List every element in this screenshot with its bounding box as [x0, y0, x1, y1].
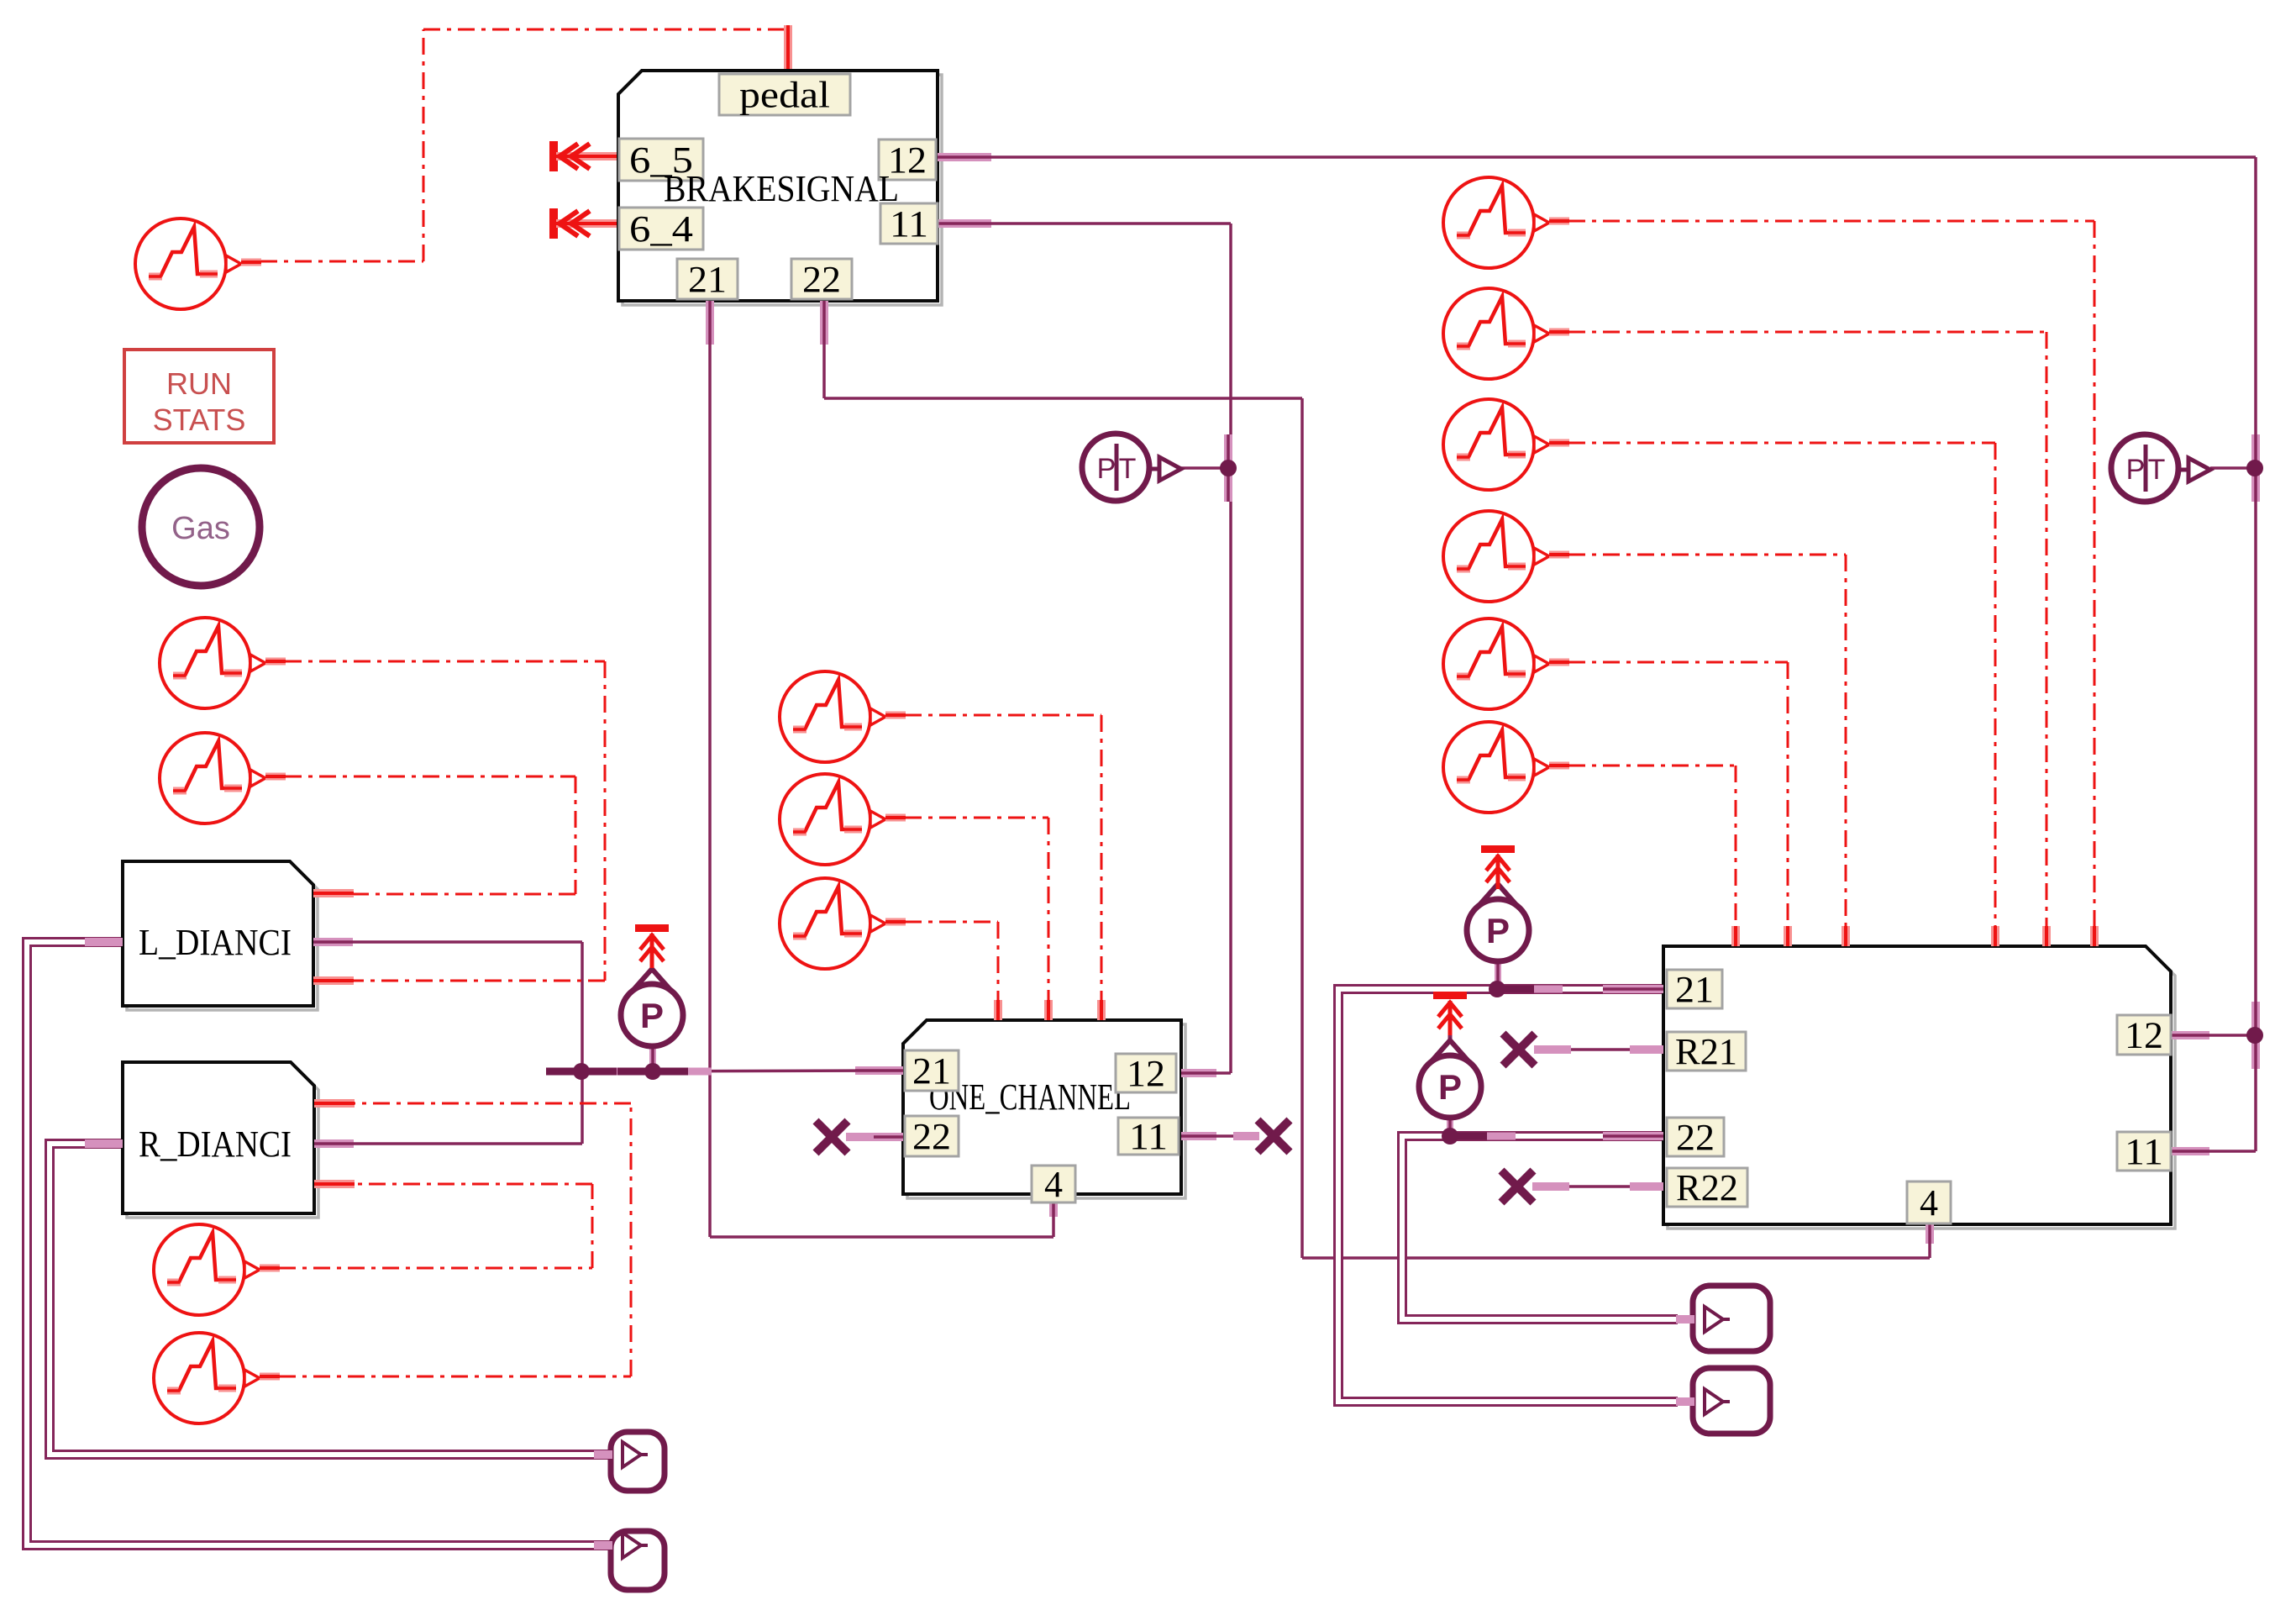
probe arrow above P left: [635, 924, 669, 968]
gauge P|T middle: [1082, 434, 1181, 501]
port stubs big-block top red: [1736, 926, 2094, 946]
port stub BRAKESIGNAL.22: [820, 301, 828, 345]
signal source S0 (pedal input): [135, 218, 261, 309]
port stub L_DIANCI left: [85, 938, 123, 946]
junction dot big-block port 12: [2246, 1027, 2263, 1044]
label BRAKESIGNAL.21: [677, 259, 738, 300]
port stub big-block.21: [1603, 985, 1663, 993]
label pedal: [719, 74, 850, 116]
component block R_DIANCI: [123, 1062, 318, 1218]
port stub ONE_CHANNEL top red 1: [994, 1000, 1002, 1020]
wire signal source S1 to L_DIANCI lower port: [285, 661, 605, 981]
signal source R1: [1443, 177, 1569, 268]
wire signal source R4 to big-block top stub 3: [1568, 555, 1846, 928]
component block hydraulic unit (right): [1663, 946, 2175, 1229]
svg-text:T: T: [1119, 453, 1137, 485]
svg-text:P: P: [1486, 911, 1510, 950]
label big-block.R21: [1667, 1031, 1746, 1072]
text ONE_CHANNEL: [929, 1076, 1131, 1118]
wire signal source R2 to big-block top stub 5: [1568, 332, 2046, 928]
wire P gauge right-1 stub to 21 pipe: [1495, 960, 1501, 989]
label ONE_CHANNEL.22: [905, 1116, 959, 1157]
probe arrow above P right 1: [1481, 845, 1515, 889]
signal source M1: [780, 671, 906, 762]
wire L_DIANCI left port to left tank 2 (double pipe): [27, 942, 611, 1545]
signal source S3: [154, 1224, 280, 1315]
junction dot P|T middle on bus: [1220, 460, 1237, 476]
port stub R_DIANCI lower red: [314, 1180, 355, 1188]
text L_DIANCI: [139, 922, 292, 963]
probe arrow above P right 2: [1433, 992, 1467, 1035]
wire big-block.R21 plug stub: [1534, 1048, 1663, 1051]
wire R_DIANCI middle port to junction A: [314, 1071, 582, 1144]
svg-text:22: 22: [1676, 1117, 1715, 1158]
svg-text:4: 4: [1920, 1182, 1938, 1223]
wire signal source S3 to R_DIANCI lower port: [279, 1184, 592, 1268]
label ONE_CHANNEL.21: [905, 1050, 959, 1092]
port stub L_DIANCI middle right: [313, 938, 353, 946]
signal source S2: [160, 733, 286, 824]
wire signal source R1 to big-block top stub 6: [1568, 221, 2094, 928]
wire right bus down to big-block port 12 and port 11: [2171, 1035, 2256, 1151]
port stub ONE_CHANNEL top red 3: [1097, 1000, 1106, 1020]
wire P|T right gauge to bus junction: [2210, 466, 2255, 470]
svg-text:BRAKESIGNAL: BRAKESIGNAL: [664, 168, 899, 209]
port stub BRAKESIGNAL.21: [706, 301, 714, 345]
svg-text:22: 22: [802, 259, 841, 300]
tank right 2 (21 return): [1676, 1368, 1770, 1434]
port stub ONE_CHANNEL.11: [1181, 1132, 1216, 1140]
svg-text:21: 21: [688, 259, 727, 300]
signal source R3: [1443, 399, 1569, 490]
signal source R6: [1443, 722, 1569, 813]
svg-text:11: 11: [2125, 1131, 2163, 1172]
port stub R_DIANCI middle right: [314, 1139, 354, 1148]
port stub 6_4: [0, 0, 1, 1]
wire junction A to junction B to ONE_CHANNEL.21: [581, 1071, 903, 1071]
port stub ONE_CHANNEL.12: [1181, 1069, 1216, 1077]
plug X ONE_CHANNEL.11: [1233, 1120, 1290, 1152]
plug X big-block.R22: [1501, 1171, 1569, 1202]
wire signal source R6 to big-block top stub 1: [1568, 766, 1736, 928]
wire BRAKESIGNAL.11 to ONE_CHANNEL.12: [938, 224, 1231, 1073]
arrow terminator 6_4: [549, 208, 617, 239]
port stub R_DIANCI left: [85, 1139, 123, 1148]
svg-text:11: 11: [890, 203, 928, 245]
label ONE_CHANNEL.12: [1116, 1053, 1176, 1094]
signal source R5: [1443, 618, 1569, 709]
RUN STATS box: [124, 350, 274, 443]
tank left 1 (R_DIANCI return): [594, 1432, 665, 1491]
label big-block.R22: [1667, 1167, 1747, 1208]
text R_DIANCI: [139, 1123, 292, 1165]
wire BRAKESIGNAL.22 to big-block port 4: [824, 301, 1930, 1258]
wire P gauge right-2 stub to 22 pipe: [1447, 1117, 1453, 1136]
svg-text:R21: R21: [1675, 1031, 1737, 1072]
gauge P|T right: [2111, 434, 2210, 502]
port stub big-block.R21: [1630, 1045, 1663, 1054]
signal source M3: [780, 878, 906, 969]
wire signal source M1 to ONE_CHANNEL top stub 3: [905, 715, 1101, 1002]
wire signal source M2 to ONE_CHANNEL top stub 2: [905, 818, 1048, 1002]
pressure gauge P (right 1): [1467, 881, 1529, 961]
wire P|T middle gauge to bus junction: [1181, 466, 1228, 470]
svg-text:RUN: RUN: [166, 366, 232, 401]
stub band at P|T right junction: [2251, 434, 2260, 502]
label BRAKESIGNAL.11: [880, 203, 938, 245]
junction dot P|T right on bus: [2246, 460, 2263, 476]
wire signal source R3 to big-block top stub 4: [1568, 443, 1995, 928]
wire signal source S2 to L_DIANCI upper port: [285, 776, 575, 894]
wire BRAKESIGNAL.21 to ONE_CHANNEL.4: [710, 301, 1053, 1237]
wire ONE_CHANNEL.11 plug stub: [1181, 1134, 1259, 1138]
label BRAKESIGNAL.22: [791, 259, 852, 300]
svg-text:P: P: [640, 996, 664, 1035]
label ONE_CHANNEL.4: [1032, 1164, 1075, 1205]
svg-text:STATS: STATS: [153, 403, 246, 437]
svg-text:6_4: 6_4: [629, 208, 693, 250]
wire signal source S0 to pedal top: [260, 25, 788, 261]
port stub ONE_CHANNEL top red 2: [1044, 1000, 1053, 1020]
wire R_DIANCI left port to left tank 1 (double pipe): [50, 1144, 611, 1455]
pressure gauge P (left): [621, 966, 683, 1046]
stub band at big-block 12 junction: [2251, 1002, 2260, 1069]
svg-text:L_DIANCI: L_DIANCI: [139, 922, 292, 963]
wire big-block.22 to right tank 1 (double pipe): [1402, 1136, 1678, 1319]
wire BRAKESIGNAL.12 to right bus and P|T junction: [938, 157, 2256, 1035]
port stub L_DIANCI upper red: [313, 889, 354, 897]
port stub big-block.11: [2171, 1147, 2209, 1155]
port stub big-block.R22: [1630, 1182, 1663, 1191]
junction dot big-block 22 pipe: [1442, 1128, 1516, 1145]
wire big-block.21 to right tank 2 (double pipe): [1338, 989, 1678, 1402]
tank right 1 (22 return): [1676, 1286, 1770, 1351]
svg-text:12: 12: [1127, 1053, 1165, 1094]
label BRAKESIGNAL.12: [879, 139, 936, 181]
port stub 6_5: [0, 0, 1, 1]
svg-text:T: T: [2148, 454, 2166, 486]
svg-text:22: 22: [912, 1116, 951, 1157]
label 6_4: [619, 208, 703, 250]
svg-text:pedal: pedal: [739, 75, 830, 116]
label big-block.4: [1907, 1181, 1951, 1223]
svg-text:P: P: [2126, 454, 2146, 486]
signal source S1: [160, 618, 286, 708]
port stub big-block.22: [1603, 1132, 1663, 1140]
component block BRAKESIGNAL (pedal): [618, 71, 942, 305]
svg-text:R22: R22: [1676, 1167, 1738, 1208]
port stub BRAKESIGNAL.12: [938, 153, 991, 161]
plug X big-block.R21: [1503, 1034, 1571, 1066]
component block ONE_CHANNEL: [903, 1020, 1185, 1198]
wire signal source R5 to big-block top stub 2: [1568, 662, 1788, 928]
wire signal source S4 to R_DIANCI upper port: [279, 1103, 631, 1376]
port stub ONE_CHANNEL.4: [1049, 1194, 1058, 1217]
svg-text:21: 21: [912, 1050, 951, 1092]
svg-text:Gas: Gas: [171, 511, 230, 546]
svg-text:R_DIANCI: R_DIANCI: [139, 1123, 292, 1165]
junction dot B (below P gauge): [617, 1063, 712, 1080]
label ONE_CHANNEL.11: [1118, 1116, 1179, 1157]
label big-block.22: [1667, 1117, 1724, 1158]
signal source M2: [780, 774, 906, 865]
wire ONE_CHANNEL.22 plug stub: [846, 1135, 903, 1139]
port stub BRAKESIGNAL.11: [938, 219, 991, 228]
port stub ONE_CHANNEL.22: [874, 1133, 903, 1141]
tank left 2 (L_DIANCI return): [594, 1531, 665, 1590]
stub band at P|T middle junction: [1224, 434, 1232, 502]
signal source R2: [1443, 288, 1569, 379]
svg-text:4: 4: [1044, 1164, 1063, 1205]
port stub big-block.12: [2171, 1031, 2209, 1039]
wire P gauge stub to junction B: [649, 1047, 656, 1071]
wire big-block.R22 plug stub: [1532, 1185, 1663, 1188]
junction dot A (DIANCI merge): [546, 1063, 640, 1080]
port stub big-block.4: [1926, 1224, 1934, 1244]
wire L_DIANCI middle port to junction A: [313, 942, 582, 1071]
pressure gauge P (right 2): [1419, 1035, 1481, 1118]
port stub L_DIANCI lower red: [313, 976, 354, 985]
junction dot big-block 21 pipe: [1489, 981, 1563, 997]
Gas accumulator circle: [142, 468, 260, 586]
arrow terminator 6_5: [549, 141, 617, 171]
label big-block.12: [2117, 1015, 2171, 1056]
signal source S4: [154, 1333, 280, 1423]
port stub R_DIANCI upper red: [314, 1099, 355, 1108]
label 6_5: [619, 139, 703, 181]
svg-text:11: 11: [1129, 1116, 1168, 1157]
svg-text:21: 21: [1675, 969, 1714, 1010]
wire signal source M3 to ONE_CHANNEL top stub 1: [905, 922, 998, 1002]
svg-text:12: 12: [2125, 1015, 2163, 1056]
component block L_DIANCI: [123, 861, 318, 1010]
svg-text:P: P: [1097, 453, 1116, 485]
svg-text:P: P: [1438, 1067, 1462, 1107]
signal source R4: [1443, 511, 1569, 602]
port stub ONE_CHANNEL.21: [855, 1066, 903, 1075]
label big-block.21: [1667, 969, 1722, 1010]
label big-block.11: [2117, 1131, 2171, 1172]
text BRAKESIGNAL: [664, 168, 899, 209]
plug X ONE_CHANNEL.22: [816, 1121, 874, 1153]
